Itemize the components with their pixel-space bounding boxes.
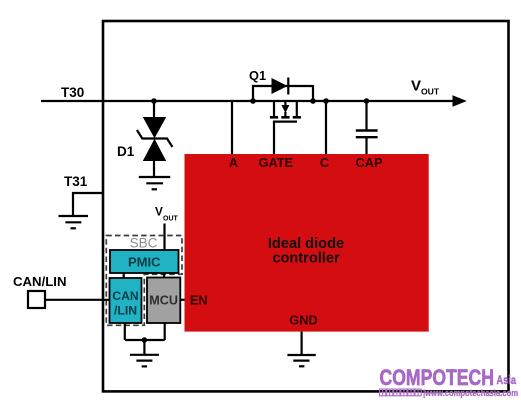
- ground below D1: [139, 177, 170, 189]
- wire CAP top lead: [365, 101, 367, 130]
- wire T30 main rail: [41, 100, 454, 102]
- svg-text:PMIC: PMIC: [128, 255, 161, 270]
- svg-text:V: V: [411, 78, 421, 95]
- ground below GND: [287, 355, 315, 366]
- svg-text:C: C: [320, 155, 329, 170]
- system boundary box: [103, 21, 509, 391]
- wire CAN/LIN bottom lead: [124, 323, 126, 340]
- logo COMPOTECH Asia: [380, 365, 519, 398]
- wire ground bus: [125, 339, 165, 341]
- node Vout arrowhead: [453, 95, 467, 107]
- node junction D1: [151, 98, 157, 104]
- wire D1 top lead: [153, 101, 155, 118]
- svg-text:SBC: SBC: [130, 236, 158, 251]
- node junction Q1 right: [310, 98, 316, 104]
- IC U1 ideal diode controller: [185, 154, 429, 332]
- svg-text:MCU: MCU: [149, 294, 178, 308]
- IC CAN/LIN transceiver: [110, 278, 142, 323]
- wire ground lead: [143, 340, 145, 355]
- wire Q1 body-diode loop: [253, 86, 313, 101]
- transistor Q1 MOSFET: [270, 101, 301, 122]
- svg-text:GATE: GATE: [258, 155, 293, 170]
- wire Vout to PMIC: [163, 224, 165, 251]
- node junction C: [323, 98, 329, 104]
- ground below CAN/MCU: [130, 355, 159, 367]
- svg-text:T31: T31: [64, 174, 88, 189]
- wire connector to CAN/LIN: [44, 299, 110, 301]
- CJK tagline simulated: [380, 389, 422, 396]
- svg-text:Q1: Q1: [249, 68, 266, 83]
- svg-text:A: A: [229, 155, 238, 170]
- IC PMIC: [110, 250, 179, 273]
- wire GND lead: [301, 332, 303, 355]
- wire PMIC to MCU: [163, 273, 165, 278]
- svg-text:COMPOTECH: COMPOTECH: [380, 365, 495, 390]
- wire CAP bottom lead: [365, 137, 367, 154]
- wire C lead: [325, 101, 327, 154]
- node junction CAP: [364, 98, 370, 104]
- svg-text:/LIN: /LIN: [114, 304, 137, 318]
- svg-text:EN: EN: [190, 294, 208, 308]
- wire MCU to EN: [180, 299, 184, 301]
- connector CAN/LIN terminal: [28, 291, 45, 308]
- svg-text:CAP: CAP: [355, 155, 382, 170]
- node junction ground: [142, 337, 148, 343]
- IC MCU: [147, 278, 180, 324]
- node junction Q1 left: [250, 98, 256, 104]
- ground below T31: [59, 216, 89, 228]
- wire A lead: [231, 101, 233, 154]
- wire D1 bottom lead: [153, 160, 155, 177]
- svg-text:V: V: [155, 205, 163, 219]
- svg-text:D1: D1: [117, 144, 135, 159]
- svg-text:|www.compotechasia.com: |www.compotechasia.com: [423, 388, 518, 398]
- svg-text:T30: T30: [61, 85, 84, 100]
- SBC dashed outline: [106, 236, 182, 326]
- svg-text:controller: controller: [272, 251, 340, 267]
- capacitor CAP: [356, 131, 378, 138]
- svg-text:CAN: CAN: [112, 289, 138, 303]
- wire MCU bottom lead: [164, 323, 166, 340]
- diode D1 TVS bidirectional: [137, 117, 173, 161]
- svg-text:OUT: OUT: [421, 87, 440, 97]
- svg-text:OUT: OUT: [163, 215, 179, 222]
- svg-text:CAN/LIN: CAN/LIN: [13, 274, 66, 289]
- diode Q1 body diode: [272, 78, 288, 94]
- svg-text:Asia: Asia: [497, 375, 517, 387]
- wire T31 stub: [73, 193, 103, 216]
- wire gate lead: [273, 122, 275, 154]
- svg-text:GND: GND: [289, 313, 317, 328]
- wire PMIC to CAN/LIN: [123, 273, 125, 278]
